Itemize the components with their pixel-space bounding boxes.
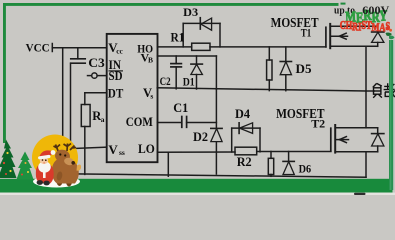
svg-text:D6: D6 <box>299 162 312 176</box>
svg-text:VCC: VCC <box>26 43 50 55</box>
svg-text:cc: cc <box>116 47 123 56</box>
svg-text:V: V <box>108 142 118 157</box>
svg-text:C1: C1 <box>173 101 188 115</box>
svg-text:B: B <box>148 55 153 64</box>
svg-text:COM: COM <box>126 114 153 129</box>
svg-text:ss: ss <box>119 148 125 157</box>
svg-text:D2: D2 <box>193 130 208 144</box>
svg-text:MOSFET: MOSFET <box>271 15 319 30</box>
svg-text:T2: T2 <box>311 117 325 131</box>
svg-text:T1: T1 <box>301 26 312 40</box>
svg-text:D1: D1 <box>183 74 195 88</box>
svg-text:DT: DT <box>108 85 124 100</box>
svg-text:D3: D3 <box>183 5 198 19</box>
svg-text:C2: C2 <box>160 74 171 88</box>
svg-text:SD: SD <box>109 68 123 83</box>
svg-text:LO: LO <box>138 142 155 156</box>
svg-text:D4: D4 <box>235 107 251 121</box>
svg-text:a: a <box>101 115 105 124</box>
svg-text:600V: 600V <box>362 3 389 17</box>
svg-text:s: s <box>150 92 153 101</box>
svg-text:R1: R1 <box>171 31 185 45</box>
svg-text:C3: C3 <box>88 55 105 70</box>
svg-text:D5: D5 <box>296 61 313 76</box>
svg-text:R2: R2 <box>237 155 252 169</box>
